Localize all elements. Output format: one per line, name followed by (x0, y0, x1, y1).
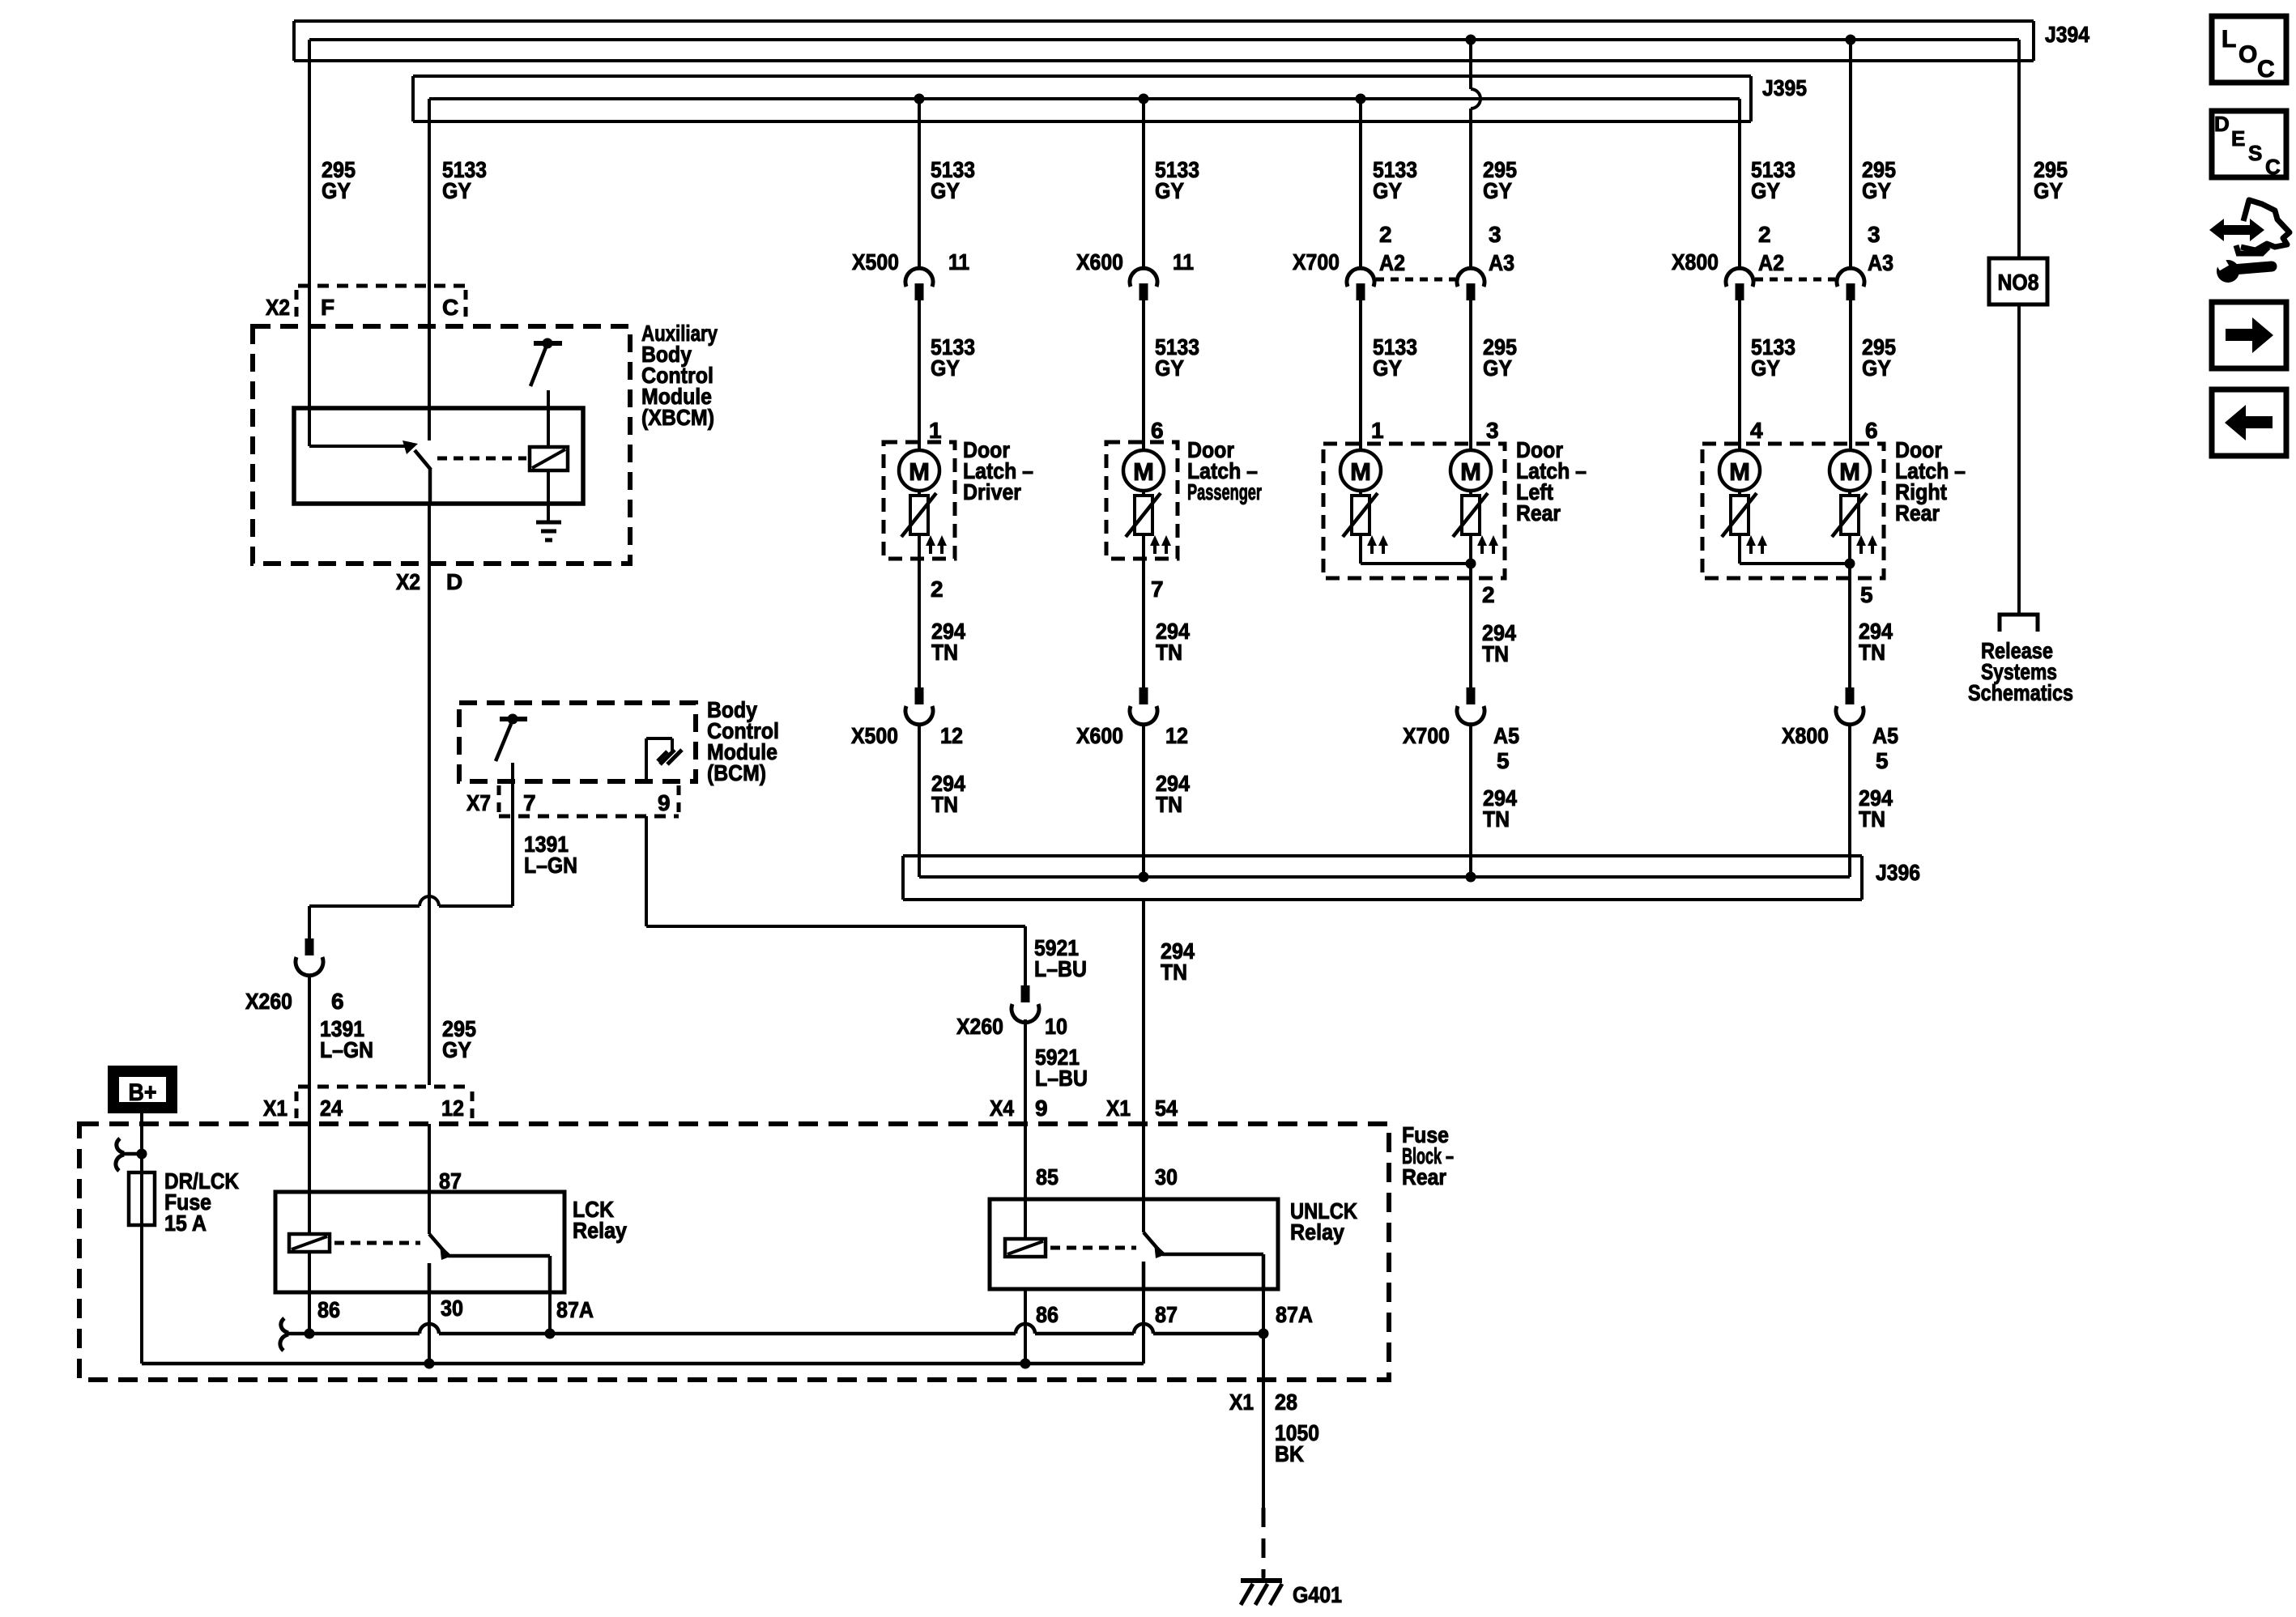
BCM internal ground wire (646, 738, 672, 781)
splice pack J394 bus rectangle (294, 21, 2034, 61)
wire XBCM pin D down (428, 504, 431, 1085)
label 5133 GY (X500 lower) (931, 334, 975, 381)
junction dot LCK-30 on B+ bus (424, 1359, 435, 1369)
door latch passenger dashed box (1106, 442, 1178, 559)
label 5921 L-BU (lower) (1035, 1045, 1088, 1091)
splice pack J396 bus rectangle (903, 856, 1862, 900)
ground bus line 86/87A (hops 30, 86, 87 wires) (285, 1324, 1263, 1334)
label pin 54 (1155, 1096, 1178, 1121)
label X260 / 10 (956, 1014, 1067, 1039)
svg-text:S: S (2248, 141, 2262, 165)
connector X700 pins 2/3 (1347, 268, 1485, 300)
label pin 30 (LCK) (441, 1296, 463, 1321)
wire 5133 GY J395 to X500 pin 11 (918, 99, 921, 268)
label 294 TN (X700 lower) (1483, 785, 1517, 832)
label 295 GY (X700 upper) (1483, 157, 1517, 203)
label Door Latch - Right Rear (1895, 437, 1966, 526)
svg-text:X1: X1 (1229, 1389, 1254, 1415)
svg-text:J395: J395 (1762, 75, 1807, 100)
thermal arrows left-rear lock (1367, 535, 1388, 554)
connector X600 pin 11 (1130, 268, 1157, 300)
wire 294 TN X800-A5 to J396 (1848, 725, 1851, 877)
wire 295 GY J394 to XBCM pin F (308, 40, 311, 446)
label Fuse Block - Rear (1402, 1122, 1454, 1189)
svg-text:2: 2 (931, 577, 944, 602)
label X260 / 6 (245, 989, 344, 1014)
svg-text:GY: GY (442, 178, 471, 203)
label J395 (1762, 75, 1807, 100)
label 295 GY (lower) (442, 1016, 476, 1062)
svg-text:9: 9 (1035, 1096, 1048, 1121)
sidebar repair icon outline (2236, 200, 2290, 253)
svg-text:L–GN: L–GN (320, 1037, 373, 1062)
svg-text:X260: X260 (245, 989, 292, 1014)
junction dot J396 X700 wire (1466, 872, 1476, 883)
labels X800 pin 3 A3 (1868, 222, 1893, 275)
junction dot J395 to X500 wire (914, 94, 925, 104)
svg-text:Rear: Rear (1516, 500, 1561, 526)
UNLCK relay coil (1005, 1239, 1046, 1257)
wire LCK-87A to ground bus (548, 1292, 552, 1334)
label pin 87A (LCK) (556, 1297, 594, 1322)
label 294 TN (X800 lower) (1859, 785, 1893, 832)
junction dot UNLCK-87A (1259, 1329, 1269, 1339)
svg-text:4: 4 (1750, 418, 1763, 443)
wire LCK-86 to ground bus (308, 1252, 311, 1334)
sidebar back arrow box (2212, 389, 2286, 456)
wire 294 TN X500-12 to J396 (918, 725, 921, 877)
XBCM switch feed from pin F (309, 440, 418, 454)
svg-text:M: M (1460, 457, 1481, 486)
fuse block rear dashed box (79, 1124, 1389, 1380)
svg-text:X1: X1 (1106, 1096, 1131, 1121)
PTC resistor left-rear lock (1343, 493, 1378, 537)
label pin 1 (LR latch) (1371, 418, 1384, 443)
labels X700 pin 3 A3 (1489, 222, 1514, 275)
label 5133 GY (X600 upper) (1155, 157, 1199, 203)
label 1050 BK (1275, 1420, 1319, 1466)
svg-text:TN: TN (1156, 792, 1182, 817)
label pin C (442, 295, 458, 320)
sidebar LOC box (2212, 16, 2286, 83)
svg-text:7: 7 (1151, 577, 1164, 602)
wire 295 GY X800-3 to latch RR pin6 (1849, 300, 1852, 450)
wire fuse to B+ bus line (140, 1225, 143, 1364)
svg-text:L–BU: L–BU (1035, 1066, 1088, 1091)
svg-text:87: 87 (439, 1168, 462, 1194)
wire LCK-30 to B+ bus (428, 1292, 431, 1364)
wire RR internal join (1740, 534, 1850, 578)
svg-text:L–GN: L–GN (524, 853, 577, 878)
label X700 / A5 / 5 (bottom) (1403, 723, 1519, 773)
svg-text:X700: X700 (1403, 723, 1450, 748)
svg-text:X1: X1 (263, 1096, 288, 1121)
label pin 86 (UNLCK) (1036, 1302, 1059, 1327)
PTC resistor left-rear unlock (1453, 493, 1488, 537)
svg-text:GY: GY (1155, 355, 1184, 381)
door latch motor M left-rear lock (1340, 450, 1381, 496)
svg-text:X800: X800 (1672, 249, 1719, 274)
connector X800 pins 2/3 (1726, 268, 1864, 300)
label X1 (right row) (1106, 1096, 1131, 1121)
svg-text:A5: A5 (1872, 723, 1898, 748)
BCM pin 7 wire (511, 763, 514, 906)
PTC resistor passenger (1126, 493, 1161, 537)
label 5133 GY (X700 lower) (1373, 334, 1417, 381)
label J394 (2045, 22, 2089, 47)
label pin F (321, 295, 334, 320)
svg-text:A3: A3 (1868, 250, 1893, 275)
label 5133 GY (X500 upper) (931, 157, 975, 203)
label 1391 L-GN (lower) (320, 1016, 373, 1062)
svg-text:L–BU: L–BU (1034, 956, 1087, 981)
wire 5921 X4-9 to UNLCK-85 (1024, 1124, 1027, 1239)
wire 1391 X1-24 to LCK coil (308, 1124, 311, 1234)
label G401 (1293, 1582, 1342, 1607)
label pin 1 (driver latch) (929, 418, 942, 443)
LCK relay coil (289, 1234, 330, 1252)
UNLCK relay actuation dashed link (1050, 1246, 1136, 1250)
wire 295 GY X1-12 to LCK-87 (428, 1124, 431, 1234)
dashed wire to G401 (1262, 1508, 1266, 1577)
svg-text:C: C (2257, 56, 2275, 83)
label Release Systems Schematics (1968, 638, 2073, 705)
wire motor passenger to pin 7 (1142, 534, 1145, 687)
wire 5133 GY X500-11 to latch driver pin1 (918, 300, 921, 450)
wire UNLCK-86 to B+ bus (1024, 1289, 1027, 1364)
svg-text:3: 3 (1486, 418, 1499, 443)
XBCM internal switch (530, 338, 562, 448)
svg-text:TN: TN (1161, 960, 1187, 985)
wire 295 GY J394 to NO8 reference (2017, 40, 2021, 258)
wire 5133 GY J395 to X800 pin 2 (1738, 99, 1741, 268)
label 5921 L-BU (upper) (1034, 935, 1087, 981)
svg-text:TN: TN (1156, 640, 1182, 665)
svg-text:10: 10 (1045, 1014, 1067, 1039)
svg-text:X600: X600 (1076, 723, 1123, 748)
UNLCK relay box (990, 1199, 1278, 1289)
svg-text:7: 7 (523, 790, 536, 815)
svg-text:11: 11 (1173, 249, 1194, 274)
svg-text:GY: GY (1862, 178, 1891, 203)
label X600 / 12 (bottom) (1076, 723, 1188, 748)
wire UNLCK-87A to ground bus (1262, 1289, 1265, 1334)
label X2 (bottom) (396, 569, 420, 594)
wire 5133 GY J395 to X700 pin 2 (1359, 99, 1362, 268)
sidebar repair icon wrench (2215, 257, 2272, 283)
label pin 85 (UNLCK) (1036, 1164, 1059, 1189)
label 5133 GY (X800 upper) (1751, 157, 1795, 203)
svg-text:TN: TN (1483, 806, 1510, 832)
svg-text:(BCM): (BCM) (707, 760, 766, 785)
connector X260 pin 6 (296, 938, 323, 976)
wire 5133 GY X600-11 to latch passenger pin6 (1142, 300, 1145, 450)
svg-text:X2: X2 (266, 295, 290, 320)
label 294 TN (X600 upper) (1156, 619, 1190, 665)
svg-text:12: 12 (940, 723, 963, 748)
svg-text:A2: A2 (1379, 250, 1405, 275)
label 295 GY (X700 lower) (1483, 334, 1517, 381)
svg-text:GY: GY (931, 178, 960, 203)
label J396 (1876, 860, 1920, 885)
UNLCK relay blade (1144, 1232, 1166, 1258)
wire 5133 GY J395 to X600 pin 11 (1142, 99, 1145, 268)
wire RR latch pin 5 down (1848, 578, 1851, 687)
svg-text:X500: X500 (851, 723, 898, 748)
BCM dashed box (459, 703, 696, 781)
svg-text:TN: TN (1859, 806, 1885, 832)
svg-text:C: C (2265, 155, 2281, 179)
wire motor driver to pin 2 (918, 534, 921, 687)
label Door Latch - Left Rear (1516, 437, 1587, 526)
svg-text:M: M (1729, 457, 1750, 486)
svg-text:X800: X800 (1782, 723, 1829, 748)
svg-text:D: D (446, 569, 462, 594)
wire 294 TN J396 to fuse block X1-54 (1142, 900, 1145, 1124)
label 294 TN (X500 lower) (931, 771, 965, 817)
BCM pin 9 wire down (645, 816, 648, 926)
LCK relay actuation dashed link (334, 1241, 420, 1245)
svg-text:GY: GY (1751, 178, 1780, 203)
label pin 6 (passenger latch) (1151, 418, 1164, 443)
wire 295 GY X700-3 to latch LR pin3 (1469, 300, 1472, 450)
connector X7 pin row (BCM) (499, 785, 679, 816)
label pin 28 (1275, 1389, 1297, 1415)
connector X1 pin row (left) (296, 1087, 472, 1121)
sidebar DESC box (2212, 111, 2286, 179)
svg-text:6: 6 (1865, 418, 1878, 443)
BCM internal switch (496, 714, 527, 762)
svg-text:D: D (2214, 112, 2230, 136)
label pin D (446, 569, 462, 594)
svg-text:24: 24 (320, 1096, 343, 1121)
label 295 GY (XBCM F) (322, 157, 356, 203)
label pin 30 (UNLCK) (1155, 1164, 1178, 1189)
svg-text:M: M (1133, 457, 1154, 486)
svg-text:A5: A5 (1493, 723, 1519, 748)
junction dot LR latch (1466, 559, 1476, 569)
svg-text:X4: X4 (990, 1096, 1014, 1121)
wire XBCM pin C through module (428, 324, 431, 440)
svg-text:5: 5 (1876, 748, 1889, 773)
label pin 3 (LR latch) (1486, 418, 1499, 443)
label pin 6 (RR latch) (1865, 418, 1878, 443)
svg-text:A2: A2 (1758, 250, 1784, 275)
svg-text:M: M (909, 457, 930, 486)
svg-text:E: E (2231, 126, 2245, 151)
wire 5133 GY X800-2 to latch RR pin4 (1738, 300, 1741, 450)
label pin 4 (RR latch) (1750, 418, 1763, 443)
label pin 87A (UNLCK) (1276, 1302, 1313, 1327)
svg-text:54: 54 (1155, 1096, 1178, 1121)
XBCM relay coil (530, 447, 568, 470)
label UNLCK Relay (1290, 1198, 1357, 1245)
label 5133 GY (X600 lower) (1155, 334, 1199, 381)
sidebar next arrow box (2212, 302, 2286, 368)
svg-text:GY: GY (442, 1037, 471, 1062)
label pin 87 (LCK) (439, 1168, 462, 1194)
svg-text:B+: B+ (129, 1079, 157, 1106)
connector X700 pin A5 (1457, 687, 1485, 725)
svg-text:BK: BK (1275, 1441, 1304, 1466)
label X700 (top) (1293, 249, 1340, 274)
svg-text:5: 5 (1860, 582, 1873, 607)
junction dot LCK-87A (545, 1329, 556, 1339)
label DR/LCK Fuse 15 A (164, 1168, 239, 1236)
wire 1050 BK (1262, 1380, 1265, 1508)
wire 294 TN X600-12 to J396 (1142, 725, 1145, 877)
junction dot RR latch (1845, 559, 1855, 569)
label 294 TN (X500 upper) (931, 619, 965, 665)
svg-text:GY: GY (1373, 178, 1402, 203)
XBCM ground symbol (536, 522, 561, 540)
junction dot B+ bus (137, 1149, 147, 1160)
svg-text:Schematics: Schematics (1968, 680, 2073, 705)
connector X500 pin 11 (905, 268, 933, 300)
label 5133 GY (XBCM C) (442, 157, 487, 203)
wire UNLCK-87 to B+ bus corner (1142, 1289, 1145, 1364)
svg-text:12: 12 (1165, 723, 1188, 748)
junction dot LCK-86 (305, 1329, 315, 1339)
door latch motor M driver (899, 450, 939, 496)
label X600 / 11 (top) (1076, 249, 1194, 274)
LCK relay 30 contact (428, 1263, 432, 1292)
sidebar repair icon double arrow (2209, 219, 2264, 241)
NO8 reference box (1989, 258, 2047, 304)
LCK relay blade (429, 1234, 452, 1260)
PTC resistor driver (901, 493, 936, 537)
svg-text:28: 28 (1275, 1389, 1297, 1415)
svg-text:X260: X260 (956, 1014, 1003, 1039)
XBCM internal ground wire (547, 470, 550, 522)
label X1 (left row) (263, 1096, 288, 1121)
svg-text:X2: X2 (396, 569, 420, 594)
label X4 (990, 1096, 1014, 1121)
svg-text:3: 3 (1868, 222, 1881, 247)
label 5133 GY (X700 upper) (1373, 157, 1417, 203)
connector X500 pin 12 (905, 687, 933, 725)
svg-text:A3: A3 (1489, 250, 1514, 275)
svg-text:NO8: NO8 (1998, 270, 2039, 295)
junction dot UNLCK-86 on B+ bus (1020, 1359, 1031, 1369)
label LCK Relay (573, 1197, 627, 1243)
svg-text:85: 85 (1036, 1164, 1059, 1189)
svg-text:11: 11 (948, 249, 969, 274)
svg-text:30: 30 (441, 1296, 463, 1321)
wire 294 X1-54 to UNLCK-30 (1142, 1124, 1145, 1232)
svg-text:X700: X700 (1293, 249, 1340, 274)
ground symbol G401 (1241, 1574, 1282, 1605)
svg-text:Driver: Driver (963, 479, 1021, 504)
thermal arrows right-rear lock (1746, 535, 1767, 554)
wire LR internal join (1361, 534, 1471, 578)
wire J394 internal bus (309, 38, 2019, 41)
svg-text:C: C (442, 295, 458, 320)
svg-text:(XBCM): (XBCM) (641, 405, 714, 430)
door latch driver dashed box (884, 442, 955, 559)
wire 1391 BCM-7 to X260-6 (hops over 295 GY wire) (309, 896, 513, 938)
svg-text:TN: TN (1482, 641, 1509, 666)
wire 5133 GY X700-2 to latch LR pin1 (1359, 300, 1362, 450)
fuse block bus clip (B+) (116, 1138, 142, 1171)
connector X2 pin row (XBCM) (296, 286, 466, 322)
svg-text:GY: GY (1483, 355, 1512, 381)
thermal arrows passenger (1150, 535, 1171, 554)
label pin 87 (UNLCK) (1155, 1302, 1178, 1327)
svg-text:6: 6 (331, 989, 344, 1014)
wire J395 internal bus (429, 97, 1740, 100)
svg-text:GY: GY (1155, 178, 1184, 203)
svg-text:Rear: Rear (1402, 1164, 1446, 1189)
junction dot J395 to X700 A2 wire (1356, 94, 1366, 104)
junction dot J396 X600 wire (1139, 872, 1149, 883)
svg-text:87A: 87A (1276, 1302, 1313, 1327)
PTC resistor right-rear unlock (1832, 493, 1867, 537)
wire BCM-9 to X260-10 (5921) (646, 926, 1025, 985)
svg-text:J396: J396 (1876, 860, 1920, 885)
svg-text:2: 2 (1758, 222, 1771, 247)
svg-text:J394: J394 (2045, 22, 2089, 47)
svg-text:G401: G401 (1293, 1582, 1342, 1607)
label X800 (top) (1672, 249, 1719, 274)
svg-text:87A: 87A (556, 1297, 594, 1322)
label Door Latch - Passenger (1187, 437, 1262, 504)
B+ battery symbol (108, 1066, 177, 1113)
svg-text:2: 2 (1482, 582, 1495, 607)
label Body Control Module (BCM) (707, 697, 779, 785)
fuse block bus clip (ground bus) (280, 1318, 288, 1351)
svg-text:12: 12 (441, 1096, 464, 1121)
XBCM relay blade (415, 450, 431, 504)
label 1391 L-GN (BCM) (524, 832, 577, 878)
XBCM relay actuation dashed link (437, 457, 526, 461)
label pin 9 (X4) (1035, 1096, 1048, 1121)
label 5133 GY (X800 lower) (1751, 334, 1795, 381)
svg-text:15 A: 15 A (164, 1211, 207, 1236)
wire 1391 X260-6 to fuse block X1-24 (308, 976, 311, 1124)
UNLCK relay 87 contact (1142, 1262, 1146, 1289)
PTC resistor right-rear lock (1722, 493, 1757, 537)
svg-text:TN: TN (931, 640, 958, 665)
DR/LCK fuse symbol (129, 1154, 155, 1225)
svg-text:86: 86 (317, 1297, 340, 1322)
wire J396 internal bus (919, 875, 1850, 879)
svg-text:M: M (1839, 457, 1860, 486)
wire 5133 GY J395 to XBCM pin C (428, 99, 431, 440)
label X500 / 12 (bottom) (851, 723, 963, 748)
label Auxiliary Body Control Module (XBCM) (641, 321, 718, 430)
svg-text:X7: X7 (466, 790, 491, 815)
label pin 9 (658, 790, 671, 815)
door latch left rear dashed box (1323, 444, 1505, 578)
connector X800 pin A5 (1836, 687, 1864, 725)
label pin 24 (320, 1096, 343, 1121)
splice pack J395 bus rectangle (413, 76, 1751, 121)
svg-text:86: 86 (1036, 1302, 1059, 1327)
svg-text:GY: GY (1373, 355, 1402, 381)
label pin 7 (523, 790, 536, 815)
junction dot J394 to X800 A3 wire (1846, 35, 1856, 45)
wire NO8 to release systems (2017, 304, 2021, 615)
label X2 (top row) (266, 295, 290, 320)
label 295 GY (X800 upper) (1862, 157, 1896, 203)
svg-text:GY: GY (1751, 355, 1780, 381)
wire 294 TN X700-A5 to J396 (1469, 725, 1472, 877)
label 294 TN (X800 upper) (1859, 619, 1893, 665)
svg-text:F: F (321, 295, 334, 320)
svg-text:2: 2 (1379, 222, 1392, 247)
thermal arrows left-rear unlock (1477, 535, 1498, 554)
